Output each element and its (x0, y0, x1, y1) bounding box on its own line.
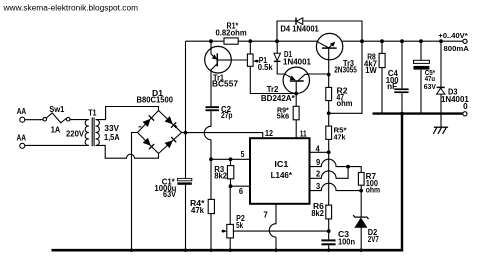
svg-text:12: 12 (265, 129, 274, 138)
terminal AA1 (20, 117, 25, 122)
svg-text:3: 3 (316, 182, 321, 191)
transistor Tr3 base bar (322, 47, 337, 49)
node Tr3-collector-R2 (327, 73, 331, 77)
wire Tr2 collector to Tr3 collector node (308, 73, 329, 75)
capacitor C3 plates (321, 239, 335, 241)
svg-text:47k: 47k (334, 133, 346, 142)
svg-text:8k2: 8k2 (214, 171, 227, 180)
transistor Tr3 base lead inside (317, 41, 329, 48)
node ground-D2 (360, 249, 363, 252)
svg-text:100n: 100n (338, 237, 355, 246)
diode D1 triangle (274, 53, 281, 60)
diode D3 triangle (437, 88, 445, 94)
resistor R3 body (227, 166, 233, 179)
svg-text:Sw1: Sw1 (49, 105, 65, 114)
switch Sw1 contact right (66, 117, 70, 121)
transistor Tr3 collector lead inside (328, 48, 330, 60)
node rail-P1 (248, 39, 252, 43)
svg-text:2N3055: 2N3055 (334, 65, 357, 74)
svg-text:AA: AA (17, 107, 27, 116)
wire output sense from R2-R5 node up to rail (329, 41, 362, 113)
svg-text:www.skema-elektronik.blogspot.: www.skema-elektronik.blogspot.com (2, 3, 138, 12)
svg-text:2: 2 (316, 170, 321, 179)
svg-text:4: 4 (316, 144, 321, 153)
terminal AA2 (20, 143, 25, 148)
transistor Tr2 base bar (290, 80, 304, 82)
svg-text:27p: 27p (221, 111, 233, 120)
svg-text:800mA: 800mA (444, 46, 469, 53)
wire Tr1 emitter column and C2 column (210, 41, 212, 106)
svg-text:33V: 33V (104, 124, 119, 133)
resistor R1 body (224, 38, 238, 44)
svg-text:L146*: L146* (271, 171, 293, 180)
resistor R7 body (358, 173, 364, 186)
bridge diode top-right (165, 116, 173, 124)
svg-text:0.82ohm: 0.82ohm (216, 28, 247, 37)
node pin6-R3-P2 (229, 184, 233, 188)
transformer T1 core (92, 117, 94, 146)
wire IC pin 5 row (211, 158, 251, 160)
capacitor C2 plates (206, 106, 220, 108)
resistor R4 body (208, 199, 214, 213)
svg-text:BC557: BC557 (212, 79, 239, 88)
transistor Tr3 circle (316, 33, 342, 59)
diode D4 cathode bar (295, 18, 297, 25)
capacitor C4 plates (394, 88, 408, 90)
node rail-C5 (419, 39, 423, 43)
svg-text:1,5A: 1,5A (104, 133, 120, 142)
bridge plus mark (174, 125, 177, 128)
wire switch lever Sw1 (46, 113, 66, 123)
capacitor C5 positive plate (414, 60, 430, 63)
transistor Tr2 collector lead (298, 74, 308, 81)
node rail-D1-D4 (275, 39, 279, 43)
node bridge-plus (184, 131, 188, 135)
svg-text:5k: 5k (236, 221, 243, 230)
node P1-Tr2-base (294, 92, 298, 96)
svg-text:ohm: ohm (366, 186, 380, 195)
svg-text:63V: 63V (424, 82, 436, 91)
wire P2 wiper to R6-C3 node (234, 230, 329, 232)
resistor R2 body (326, 87, 332, 100)
wire AA1 to switch (25, 119, 43, 121)
potentiometer P2 body (227, 224, 234, 238)
wire top positive rail (186, 40, 464, 42)
wire C5 column (420, 41, 422, 113)
node rail-D3 (439, 39, 443, 43)
wire R3 column (230, 159, 232, 186)
wire R8 column (381, 41, 383, 113)
svg-text:+0..40V*: +0..40V* (438, 33, 468, 40)
svg-text:8k2: 8k2 (311, 209, 324, 218)
resistor R9 body (293, 106, 299, 120)
svg-text:0.5k: 0.5k (258, 63, 274, 72)
zener D2 cathode bar (353, 215, 368, 219)
transistor Tr2 base lead inside (295, 81, 297, 94)
node ground-bridge (130, 249, 133, 252)
wire P1 top from rail, P1 bottom to Tr2 base node (250, 41, 296, 93)
node rail-sense (360, 39, 364, 43)
transistor Tr2 emitter lead and arrow (285, 74, 295, 80)
transistor Tr1 collector lead (211, 64, 217, 72)
node pin9-pin2 (346, 165, 350, 169)
capacitor C5 negative plate (414, 66, 430, 70)
node ground-C3 (327, 249, 330, 252)
node rail-R8 (380, 39, 384, 43)
svg-text:5k6: 5k6 (277, 111, 290, 120)
node pin4-R5-R6 (327, 150, 331, 154)
svg-text:7: 7 (263, 211, 267, 220)
svg-text:AA: AA (17, 134, 27, 143)
wire main raw-supply rail (185, 41, 187, 250)
wire IC pin 9 with hop to R7 top (310, 159, 362, 172)
svg-text:B80C1500: B80C1500 (137, 96, 174, 105)
terminal output zero (463, 112, 467, 116)
bridge rectifier D1 B80C1500 diamond (138, 111, 182, 154)
svg-text:5: 5 (241, 150, 245, 159)
bridge diode bottom-left (143, 138, 151, 146)
switch Sw1 contact left (43, 117, 47, 121)
svg-text:1W: 1W (365, 66, 377, 75)
diode D4 triangle (297, 18, 303, 25)
wire IC pin 7 with hop over P2 wiper wire (269, 204, 276, 250)
svg-text:D4 1N4001: D4 1N4001 (280, 25, 319, 34)
terminal output plus (463, 39, 467, 43)
bridge diode bottom-right (165, 140, 173, 148)
svg-text:9: 9 (316, 158, 321, 167)
svg-text:6: 6 (239, 187, 244, 196)
node ground-mainrail (184, 249, 187, 252)
wire IC pin 4 (310, 151, 329, 153)
node rail-Tr1 (209, 39, 213, 43)
wire R7 / D2 column (360, 173, 362, 251)
node pin5-R3 (229, 157, 233, 161)
svg-text:11: 11 (300, 129, 308, 138)
wire IC pin 3 with hop to R7 bottom and D2 (310, 183, 362, 190)
resistor R5 body (326, 126, 332, 139)
svg-text:63V: 63V (163, 190, 177, 199)
svg-text:0: 0 (463, 102, 468, 111)
node R2-R5-sense (327, 111, 331, 115)
potentiometer P1 wiper arrow (253, 60, 256, 63)
wire Tr1 base to P1 (217, 59, 247, 61)
wire bridge minus to ground rail (132, 133, 138, 251)
wire main rail to IC pin 12 (186, 133, 263, 139)
wire chassis ground stub (440, 114, 442, 128)
wire IC pin 2 with hop up to pin 9 wire (310, 167, 349, 179)
transistor Tr3 emitter lead and arrow (329, 43, 334, 48)
transformer T1 primary winding (85, 120, 89, 146)
node ground-pin7 (274, 249, 277, 252)
wire below C2 with hop over pin-12 wire (204, 111, 211, 250)
resistor R8 body (379, 53, 385, 67)
wire bottom ground rail (52, 249, 404, 252)
wire IC pin 6 row (231, 185, 251, 187)
svg-text:47k: 47k (191, 206, 205, 215)
chassis ground symbol (434, 126, 448, 128)
wire P2 column (229, 186, 231, 250)
wire bridge plus to main rail (182, 132, 186, 134)
diode D3 cathode bar (437, 86, 445, 88)
wire thick drop joining 0V rail to ground rail (401, 114, 403, 252)
svg-text:BD242A*: BD242A* (261, 94, 296, 103)
op-amp regulator IC1 box (250, 138, 310, 204)
node ground-P2 (229, 249, 232, 252)
wire C4 column (401, 41, 403, 113)
svg-text:IC1: IC1 (274, 160, 289, 169)
wire 0V output rail (373, 112, 463, 114)
transistor Tr1 emitter lead and arrow (211, 48, 217, 60)
node pin3-R7-D2 (359, 189, 363, 193)
wire secondary bottom to bridge AC2 with hop (96, 145, 159, 158)
transistor Tr1 base lead inside (217, 59, 231, 61)
svg-text:1N4001: 1N4001 (283, 57, 312, 66)
wire Tr3 collector / R2 / R5 / R6 / C3 column (328, 60, 330, 251)
transistor Tr1 base bar (216, 53, 218, 66)
bridge minus mark (139, 126, 142, 128)
potentiometer P1 body (247, 54, 253, 66)
node R6-C3-wiper (327, 229, 331, 233)
diode D1 cathode bar (274, 60, 281, 62)
svg-text:nF: nF (387, 82, 397, 91)
zener D2 triangle (355, 218, 367, 228)
svg-text:220V: 220V (66, 129, 85, 138)
node pin5-C2 (209, 157, 213, 161)
wire D1 column from rail and elbow to Tr2 (277, 41, 285, 74)
svg-text:T1: T1 (88, 109, 96, 118)
svg-text:ohm: ohm (337, 99, 353, 108)
transistor Tr1 circle (205, 46, 232, 73)
wire D3 column (440, 41, 442, 113)
bridge diode top-left (143, 119, 151, 127)
svg-text:Tr2: Tr2 (267, 85, 279, 94)
svg-text:2V7: 2V7 (368, 235, 379, 244)
node ground-R4 (209, 249, 212, 252)
node rail-C4 (400, 39, 404, 43)
wire D4 protection loop (277, 21, 362, 41)
wire Tr2 base / R9 / IC pin 11 column (295, 93, 297, 138)
wire switch to transformer primary (70, 119, 89, 121)
node 0V-drop (400, 112, 404, 116)
wire secondary top to bridge AC1 (96, 107, 159, 120)
resistor R6 body (326, 205, 332, 219)
potentiometer P2 wiper arrow (224, 230, 227, 233)
transformer T1 secondary winding (96, 120, 100, 146)
svg-text:1A: 1A (51, 126, 61, 135)
transistor Tr2 circle (283, 67, 309, 93)
capacitor C1 plates (177, 178, 191, 180)
wire AA2 to transformer primary bottom (25, 144, 89, 146)
